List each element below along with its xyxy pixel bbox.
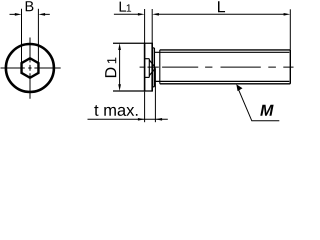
dimension L dimension line with arrows [157, 13, 286, 15]
dimension D1 extension line top (collinear with head top edge) [113, 42, 152, 44]
shaft outline top (thread major diameter) [160, 49, 290, 51]
label L1 (head height) [120, 2, 126, 12]
under-head boss top edge [152, 47, 154, 49]
screw head side view, top face line (left) [144, 43, 146, 92]
thread minor diameter line bottom [154, 80, 289, 82]
under-head boss bottom edge [152, 86, 154, 88]
dimension t right arrow [155, 118, 162, 121]
dimension L1 dimension line with arrow [114, 13, 139, 15]
centerline of shaft, dash-dot [140, 66, 294, 68]
dimension D1 dimension line with arrows [119, 47, 121, 88]
hex socket bottom line [148, 59, 150, 78]
dimension B dimension line left segment with arrow [10, 13, 17, 15]
dimension t extension line left [144, 92, 146, 123]
hex socket, front view [22, 58, 39, 78]
leader line for M with arrow [238, 89, 279, 121]
thread minor diameter line top [154, 51, 289, 53]
dimension t extension line right [154, 69, 156, 123]
dimension L1 extension line right [151, 9, 153, 43]
dimension L1 extension line left [144, 9, 146, 43]
centerline horizontal (front view) [1, 67, 61, 69]
dimension t dimension line with left arrow [88, 118, 168, 120]
socket bottom cone lower slant [149, 68, 155, 76]
centerline vertical (front view) [29, 38, 31, 99]
hex socket side view, lower line [145, 76, 150, 78]
screw head side view, under-head face line (right) [151, 43, 153, 92]
label D1, rotated (head diameter) [105, 58, 116, 78]
label M, italic (thread size) [260, 105, 273, 116]
label L (thread length) [218, 1, 225, 12]
label t max. (socket depth) [94, 105, 137, 116]
screw head outline circle, front view (dia D1) [6, 44, 54, 92]
label B (socket width across flats) [26, 1, 34, 11]
dimension B extension line right [37, 9, 39, 63]
hex socket side view, upper line [145, 58, 150, 60]
dimension L extension line right (shaft end extended) [289, 9, 291, 50]
dimension B dimension line right segment with arrow [44, 13, 50, 15]
dimension B extension line left [21, 9, 23, 63]
dimension D1 extension line bottom (collinear with head bottom edge) [113, 90, 152, 92]
under-head boss right face [153, 48, 155, 87]
socket bottom cone upper slant [149, 60, 155, 68]
shaft outline bottom (thread major diameter) [160, 83, 290, 85]
complete-thread start line [159, 50, 161, 84]
shaft end face line [289, 50, 291, 84]
